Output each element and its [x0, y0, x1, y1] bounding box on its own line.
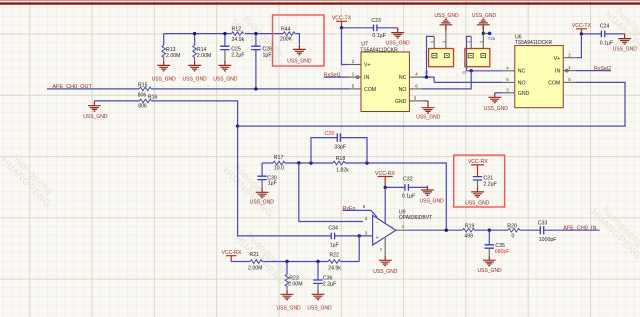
pin 4 stub U7 NC — [409, 72, 421, 77]
svg-text:USS_GND: USS_GND — [250, 200, 275, 206]
capacitor C34 — [328, 225, 338, 248]
svg-text:TS5A9411DCKR: TS5A9411DCKR — [515, 40, 553, 46]
ground right of C32 — [420, 186, 445, 205]
net label RxEn — [343, 204, 378, 217]
pin 6 stub U7 NO — [409, 84, 421, 89]
junction bias / C36 — [316, 260, 319, 263]
resistor R14 — [193, 34, 212, 61]
svg-text:2.2µF: 2.2µF — [231, 53, 244, 59]
svg-text:C31: C31 — [483, 175, 493, 181]
net label RxSel1 — [324, 72, 349, 78]
svg-text:R19: R19 — [465, 223, 475, 229]
svg-text:R15: R15 — [138, 82, 148, 88]
pin 1 stub U6 IN — [563, 65, 575, 72]
resistor R22 — [328, 253, 341, 272]
svg-text:1µF: 1µF — [330, 243, 339, 249]
svg-text:USS_GND: USS_GND — [434, 13, 459, 19]
svg-text:USS_GND: USS_GND — [416, 115, 441, 121]
ground under R23 — [277, 290, 302, 312]
svg-text:C34: C34 — [328, 225, 338, 231]
ground under R14 — [183, 61, 208, 82]
wire to U7 V+ — [342, 28, 349, 65]
ground under R44 — [287, 45, 312, 64]
wire C24 to ground — [605, 33, 625, 35]
wire hook J3 pin1 — [467, 36, 472, 70]
resistor R23 — [285, 262, 302, 290]
capacitor C36 — [313, 262, 336, 290]
svg-text:NC: NC — [518, 69, 526, 75]
wire R20 to C33 — [520, 229, 540, 231]
svg-text:R18: R18 — [336, 156, 346, 162]
junction on bus at C25 — [223, 32, 226, 35]
wire U6 NO run — [434, 81, 502, 83]
resistor R13 — [162, 34, 181, 61]
jumper J1 — [425, 31, 454, 74]
svg-text:C26: C26 — [263, 46, 273, 52]
resistor R15 — [138, 82, 152, 98]
svg-text:OPA836IDBVT: OPA836IDBVT — [399, 215, 432, 221]
svg-text:806: 806 — [138, 92, 147, 98]
ground under R13 — [152, 61, 177, 82]
svg-text:GND: GND — [395, 99, 407, 105]
wire R19 to R20 — [475, 229, 508, 231]
svg-text:USS_GND: USS_GND — [152, 76, 177, 82]
wire VCC-TX node — [342, 27, 374, 29]
ground under C25 — [213, 61, 238, 82]
ground under C35 — [478, 256, 503, 274]
resistor R44 — [280, 26, 299, 44]
wire C34 to + input — [335, 235, 373, 237]
svg-text:USS_GND: USS_GND — [277, 305, 302, 311]
svg-text:USS_GND: USS_GND — [183, 76, 208, 82]
svg-text:200K: 200K — [280, 36, 293, 42]
junction + input / bias — [358, 234, 361, 237]
svg-text:R12: R12 — [232, 26, 242, 32]
wire bias vertical — [358, 236, 360, 262]
junction on bus at C26 — [254, 32, 257, 35]
svg-text:R13: R13 — [166, 47, 176, 53]
junction J3 / NC net — [470, 69, 473, 72]
svg-text:U7: U7 — [361, 41, 368, 47]
svg-text:USS_GND: USS_GND — [83, 114, 108, 120]
svg-text:2.2µF: 2.2µF — [323, 282, 336, 288]
svg-text:R14: R14 — [197, 47, 207, 53]
wire bias row — [231, 261, 250, 263]
wire R16 to node — [152, 101, 238, 126]
wire U7 GND pin — [423, 100, 428, 102]
junction bus / inverting drop — [297, 161, 300, 164]
svg-text:V+: V+ — [364, 63, 371, 69]
pin 5 stub U7 COM — [349, 84, 361, 89]
svg-text:R22: R22 — [329, 253, 339, 259]
ground under U7 — [416, 101, 441, 121]
svg-text:0.1µF: 0.1µF — [402, 193, 415, 199]
svg-text:C29: C29 — [325, 131, 335, 137]
junction VCC-TX right — [580, 32, 583, 35]
svg-text:C25: C25 — [231, 46, 241, 52]
svg-text:T15: T15 — [488, 36, 496, 41]
wire top bus left segment — [164, 33, 232, 35]
svg-text:USS_GND: USS_GND — [472, 13, 497, 19]
svg-text:USS_GND: USS_GND — [386, 40, 411, 46]
svg-text:33pF: 33pF — [334, 145, 346, 151]
pin 4 stub U6 NC — [502, 65, 515, 70]
wire inverting input — [299, 163, 363, 222]
ground under U6 — [484, 93, 509, 112]
svg-text:806: 806 — [138, 103, 147, 109]
svg-text:R17: R17 — [274, 155, 284, 161]
svg-text:1µF: 1µF — [263, 53, 272, 59]
pin 2 stub U6 V+ — [563, 52, 575, 57]
wire VCC-TX right node — [581, 33, 601, 35]
wire node down to C34 — [238, 126, 332, 236]
capacitor C24 — [600, 24, 613, 47]
pin 6 stub U6 NO — [502, 77, 515, 82]
junction J1 / NC net — [425, 75, 428, 78]
jumper J3 — [462, 35, 490, 74]
svg-text:R21: R21 — [250, 252, 260, 258]
svg-text:C32: C32 — [403, 177, 413, 183]
svg-text:2.00M: 2.00M — [166, 53, 180, 59]
wire gnd to R16 — [94, 100, 139, 102]
svg-text:1000pF: 1000pF — [539, 237, 557, 243]
power VCC-TX (right) — [572, 23, 592, 34]
capacitor C32 — [402, 177, 415, 200]
wire top bus right segment — [245, 33, 283, 35]
test point T15 — [482, 32, 496, 41]
ground left of R16 — [83, 101, 108, 120]
svg-text:USS_GND: USS_GND — [373, 269, 398, 275]
wire R22 to + node — [340, 261, 359, 263]
svg-text:NO: NO — [399, 87, 407, 93]
svg-text:USS_GND: USS_GND — [307, 305, 332, 311]
junction AFE wire / C26 — [254, 87, 257, 90]
power VCC-RX (op-amp) — [375, 171, 395, 188]
svg-text:−: − — [375, 220, 378, 226]
svg-text:USS_GND: USS_GND — [484, 106, 509, 112]
ground right of C23 — [386, 28, 411, 47]
wire hook J1 pin1 — [427, 36, 435, 77]
sheet top border — [0, 0, 640, 1]
svg-text:499: 499 — [464, 234, 473, 240]
wire VCC-RX to op-amp V+ — [384, 187, 386, 223]
capacitor C30 — [257, 163, 277, 188]
svg-text:AFE_CH0_IN: AFE_CH0_IN — [563, 226, 596, 232]
ground above jumper J1 — [434, 13, 459, 31]
wire U7 NC to junction — [422, 77, 434, 82]
svg-text:COM: COM — [364, 87, 376, 93]
svg-text:C23: C23 — [371, 18, 381, 24]
op-amp U9 OPA836IDBVT — [373, 209, 433, 245]
capacitor C26 — [251, 34, 272, 89]
resistor R17 — [262, 155, 285, 171]
pin 3 stub U7 GND — [409, 96, 422, 101]
svg-text:TS5A9411DCKR: TS5A9411DCKR — [360, 47, 398, 53]
capacitor C33 — [538, 220, 557, 243]
resistor R16 — [138, 94, 157, 109]
wire C23 to ground — [377, 27, 398, 29]
svg-text:R20: R20 — [507, 223, 517, 229]
wire R15 to U7 COM — [151, 88, 349, 90]
wire U6 GND pin — [495, 92, 503, 94]
ground under C36 — [307, 290, 332, 312]
svg-text:2.00M: 2.00M — [288, 282, 302, 288]
ground under C31 — [465, 188, 490, 207]
svg-text:IN: IN — [364, 75, 369, 81]
wire bus to output — [345, 163, 446, 230]
resistor R18 — [333, 156, 349, 174]
svg-text:GND: GND — [518, 91, 530, 97]
pin 5 stub U6 COM — [563, 77, 575, 82]
svg-text:IN: IN — [555, 69, 560, 75]
svg-text:R16: R16 — [148, 94, 158, 100]
wire C32 to ground — [408, 186, 427, 188]
wire VCC-RX node — [385, 186, 405, 188]
junction bus / C29 right — [365, 161, 368, 164]
junction output / C35 — [488, 229, 491, 232]
red highlight box around R44 — [273, 15, 325, 66]
svg-text:0: 0 — [512, 234, 515, 240]
pin 2 stub U7 V+ — [349, 59, 361, 64]
junction bus / C29 left — [309, 161, 312, 164]
pin 3 stub U6 GND — [502, 87, 515, 92]
red highlight box around C31 — [454, 155, 505, 207]
svg-text:2.2µF: 2.2µF — [483, 181, 496, 187]
svg-text:1µF: 1µF — [268, 180, 277, 186]
svg-text:C35: C35 — [495, 243, 505, 249]
pin 1 stub U7 IN — [349, 72, 361, 79]
svg-text:USS_GND: USS_GND — [213, 76, 238, 82]
svg-text:NC: NC — [399, 75, 407, 81]
power VCC-RX (C31) — [468, 159, 488, 176]
junction on bus at R14 — [193, 32, 196, 35]
ground right of C24 — [613, 34, 638, 53]
svg-text:1.82k: 1.82k — [336, 168, 349, 174]
svg-text:0.1µF: 0.1µF — [372, 33, 385, 39]
resistor R21 — [248, 252, 262, 271]
wire long horizontal node to U6 COM — [238, 82, 625, 126]
svg-text:0.1µF: 0.1µF — [600, 40, 613, 46]
ground under C30 — [250, 188, 275, 206]
power VCC-RX (bias) — [222, 250, 242, 262]
junction VCC-TX — [340, 26, 343, 29]
svg-text:+: + — [375, 236, 378, 242]
svg-text:USS_GND: USS_GND — [478, 268, 503, 274]
power VCC-TX (left) — [332, 16, 352, 28]
junction VCC-RX op-amp — [384, 186, 387, 189]
svg-text:USS_GND: USS_GND — [465, 200, 490, 206]
svg-text:C33: C33 — [538, 220, 548, 226]
resistor R19 — [463, 223, 475, 239]
wire feedback bus — [285, 162, 333, 164]
junction transducer node — [236, 124, 239, 127]
svg-text:R44: R44 — [281, 26, 291, 32]
ground under op-amp — [373, 238, 398, 275]
wire U6 NC run — [467, 70, 503, 72]
capacitor C35 — [485, 230, 510, 256]
svg-text:USS_GND: USS_GND — [287, 58, 312, 64]
junction output / feedback — [445, 229, 448, 232]
op-amp mux U7 TS5A9411DCKR — [360, 41, 409, 111]
resistor R20 — [507, 223, 520, 239]
svg-text:680pF: 680pF — [495, 249, 510, 255]
svg-text:2.00M: 2.00M — [248, 265, 262, 271]
op-amp mux U6 TS5A9411DCKR — [515, 34, 564, 107]
svg-text:V+: V+ — [554, 56, 561, 62]
capacitor C29 — [311, 131, 367, 163]
svg-text:2.00M: 2.00M — [197, 53, 211, 59]
net label RxSel2 — [576, 66, 612, 72]
wire output — [409, 229, 463, 231]
junction bias / R23 — [285, 260, 288, 263]
svg-text:USS_GND: USS_GND — [613, 47, 638, 53]
wire AFE_CH0_OUT — [47, 88, 139, 90]
resistor R12 — [232, 26, 245, 43]
svg-text:24.9k: 24.9k — [232, 37, 245, 43]
wire to U6 V+ — [576, 34, 582, 58]
capacitor C23 — [371, 18, 385, 39]
svg-text:COM: COM — [548, 81, 560, 87]
capacitor C25 — [220, 34, 244, 61]
pin 1 output stub — [396, 224, 409, 230]
svg-text:C24: C24 — [600, 24, 610, 30]
wire R21 to R22 — [262, 261, 328, 263]
ground above jumper J3 — [472, 13, 497, 32]
svg-text:NO: NO — [518, 81, 526, 87]
wire AFE_CH0_IN — [544, 229, 600, 231]
svg-text:24.9k: 24.9k — [328, 265, 341, 271]
svg-text:USS_GND: USS_GND — [420, 198, 445, 204]
capacitor C31 — [473, 175, 497, 187]
svg-text:10.0: 10.0 — [274, 165, 284, 171]
wire U7 NO to J3 net — [422, 71, 472, 89]
svg-text:VCC-RX: VCC-RX — [222, 250, 242, 256]
